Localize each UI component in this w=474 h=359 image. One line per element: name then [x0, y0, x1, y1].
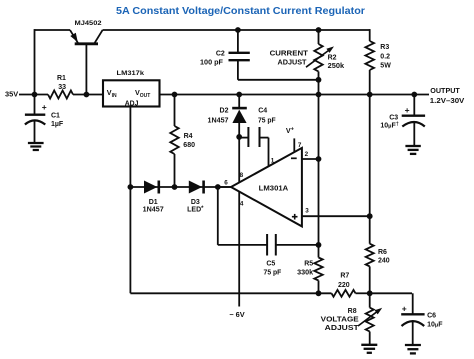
potentiometer R2 250k CURRENT ADJUST [306, 30, 334, 95]
wire: pin 4 lead from op-amp bottom slope down to -6V [238, 192, 240, 307]
svg-text:R8: R8 [348, 308, 357, 315]
svg-text:7: 7 [298, 142, 302, 149]
node: junction R4 bottom on diode row [172, 184, 178, 190]
svg-text:5W: 5W [380, 63, 391, 70]
node: junction R3 bottom on main rail [367, 92, 373, 98]
svg-text:6: 6 [224, 179, 228, 186]
pin 7 V+ lead [293, 138, 295, 152]
svg-text:240: 240 [378, 258, 390, 265]
node: junction C5 right / R5 top [316, 242, 322, 248]
wire: top rail left segment (35V riser to Q1 emitter) [35, 29, 71, 31]
svg-text:330k: 330k [297, 269, 313, 276]
svg-text:R3: R3 [380, 44, 389, 51]
capacitor C2 100 pF [229, 30, 319, 80]
svg-text:− 6V: − 6V [229, 312, 245, 319]
svg-text:D2: D2 [220, 107, 229, 114]
svg-text:C2: C2 [216, 51, 225, 58]
diode D2 1N457 (vertical) [232, 95, 247, 137]
potentiometer R8 VOLTAGE ADJUST [358, 293, 382, 344]
node: junction D2 top on main rail [236, 92, 242, 98]
svg-text:100 pF: 100 pF [200, 60, 224, 67]
node: junction C2 top on top rail [235, 27, 241, 33]
wire: pin 2 inverting input to feedback column [302, 158, 319, 160]
svg-text:LM301A: LM301A [259, 185, 289, 192]
svg-text:OUTPUT: OUTPUT [430, 88, 460, 95]
svg-text:4: 4 [240, 201, 244, 208]
node: junction D3 cathode / op-amp output / C5 [215, 184, 221, 190]
resistor R7 220 [332, 290, 356, 297]
diode D1 1N457 [144, 181, 159, 194]
svg-text:VOLTAGE: VOLTAGE [321, 316, 359, 323]
ground below C3 [405, 145, 420, 147]
svg-text:1: 1 [271, 157, 275, 164]
wire: main rail LM317 Vout to OUTPUT [160, 94, 429, 96]
resistor R3 0.2 5W [365, 29, 374, 94]
node: junction D2 anode / C4 / pin 8 [236, 134, 242, 140]
wire: ADJ pin down to D1 anode and to -6V rail [129, 107, 131, 293]
node: junction Q1 base on main rail [84, 92, 90, 98]
node: junction pin 3 / R6 column [367, 213, 373, 219]
wire: feedback column main rail to C5 [318, 95, 320, 245]
svg-text:1N457: 1N457 [143, 207, 164, 214]
op-amp U2 LM301A (triangle pointing left) [231, 148, 302, 227]
svg-text:ADJ: ADJ [125, 100, 139, 107]
svg-text:C6: C6 [427, 312, 436, 319]
node: OUTPUT terminal [411, 92, 417, 98]
capacitor C3 10µF (polarized, output) [402, 95, 425, 146]
svg-text:R1: R1 [57, 75, 66, 82]
ground below C1 [28, 142, 44, 144]
wire: left riser from 35V node to top rail [34, 29, 36, 94]
node: junction R2 top on top rail [316, 27, 322, 33]
svg-text:C5: C5 [266, 260, 275, 267]
wire: op-amp output (pin 6) to D3 node [218, 186, 231, 188]
svg-text:LM317k: LM317k [117, 70, 145, 77]
svg-text:C3: C3 [389, 114, 398, 121]
svg-text:+: + [405, 105, 410, 115]
inverting input minus sign [291, 157, 297, 159]
node: junction R2 bottom / C2 [316, 77, 322, 83]
svg-text:35V: 35V [5, 92, 19, 99]
svg-text:R2: R2 [328, 55, 337, 62]
wire: -6V rail [130, 292, 331, 294]
svg-text:1N457: 1N457 [208, 117, 229, 124]
svg-text:250k: 250k [328, 63, 345, 70]
svg-text:CURRENT: CURRENT [270, 51, 309, 58]
resistor R6 240 [366, 95, 374, 294]
svg-text:10µF: 10µF [427, 321, 443, 328]
resistor R5 330k [314, 245, 322, 293]
svg-text:R6: R6 [378, 249, 387, 256]
svg-text:1.2V–30V: 1.2V–30V [430, 98, 465, 105]
wire: top rail right segment (Q1 collector to R3) [103, 29, 370, 31]
svg-text:ADJUST: ADJUST [325, 325, 360, 332]
svg-text:3: 3 [305, 207, 309, 214]
resistor R4 680 [170, 95, 178, 188]
node: junction R7 / R8 / C6 [367, 290, 373, 296]
svg-text:C4: C4 [258, 107, 267, 114]
capacitor C6 10µF (polarized) [370, 293, 425, 345]
ground below R8 [361, 344, 377, 346]
ground below C6 [405, 344, 421, 346]
svg-text:D3: D3 [191, 199, 200, 206]
diode D3 LED [189, 181, 204, 194]
svg-text:680: 680 [183, 142, 195, 149]
svg-text:R5: R5 [304, 261, 313, 268]
wire: diode row ADJ node to op-amp output [130, 186, 231, 188]
svg-text:2: 2 [305, 151, 309, 158]
capacitor C4 75 pF (compensation) [239, 127, 268, 167]
capacitor C5 75 pF (feedback) [218, 187, 319, 256]
svg-text:R7: R7 [340, 272, 349, 279]
svg-text:R4: R4 [184, 133, 193, 140]
svg-text:0.2: 0.2 [380, 53, 390, 60]
svg-text:1µF: 1µF [51, 121, 64, 128]
svg-text:ADJUST: ADJUST [278, 60, 308, 67]
non-inverting input plus sign [292, 216, 298, 218]
node: junction R4 top on main rail [172, 92, 178, 98]
wire: main rail 35V input to LM317 Vin [19, 94, 48, 96]
svg-text:75 pF: 75 pF [258, 117, 276, 124]
node: junction pin 2 tap [316, 156, 322, 162]
svg-text:8: 8 [240, 172, 244, 179]
svg-text:+: + [402, 303, 407, 313]
svg-text:+: + [42, 102, 47, 112]
node: junction R5 bottom on -6V rail [316, 290, 322, 296]
svg-text:5A Constant Voltage/Constant C: 5A Constant Voltage/Constant Current Reg… [116, 6, 365, 17]
svg-text:D1: D1 [149, 199, 158, 206]
node: junction ADJ / D1 anode [127, 184, 133, 190]
op-amp regulator U1 LM317k box [103, 80, 160, 106]
transistor Q1 MJ4502 (PNP pass transistor) [70, 30, 103, 95]
wire: pin 3 non-inverting input to R6 column [302, 215, 370, 217]
capacitor C1 1µF (polarized, input) [25, 95, 45, 143]
svg-text:33: 33 [58, 84, 66, 91]
node: junction R2 column on main rail [316, 92, 322, 98]
wire: pin 8 lead from D2 node to op-amp top slope [238, 137, 240, 183]
svg-text:C1: C1 [51, 113, 60, 120]
node: junction 35V riser on main rail [32, 92, 38, 98]
svg-text:75 pF: 75 pF [264, 269, 282, 276]
svg-text:220: 220 [338, 282, 350, 289]
resistor R1 33 [48, 91, 73, 99]
svg-text:MJ4502: MJ4502 [75, 20, 102, 27]
